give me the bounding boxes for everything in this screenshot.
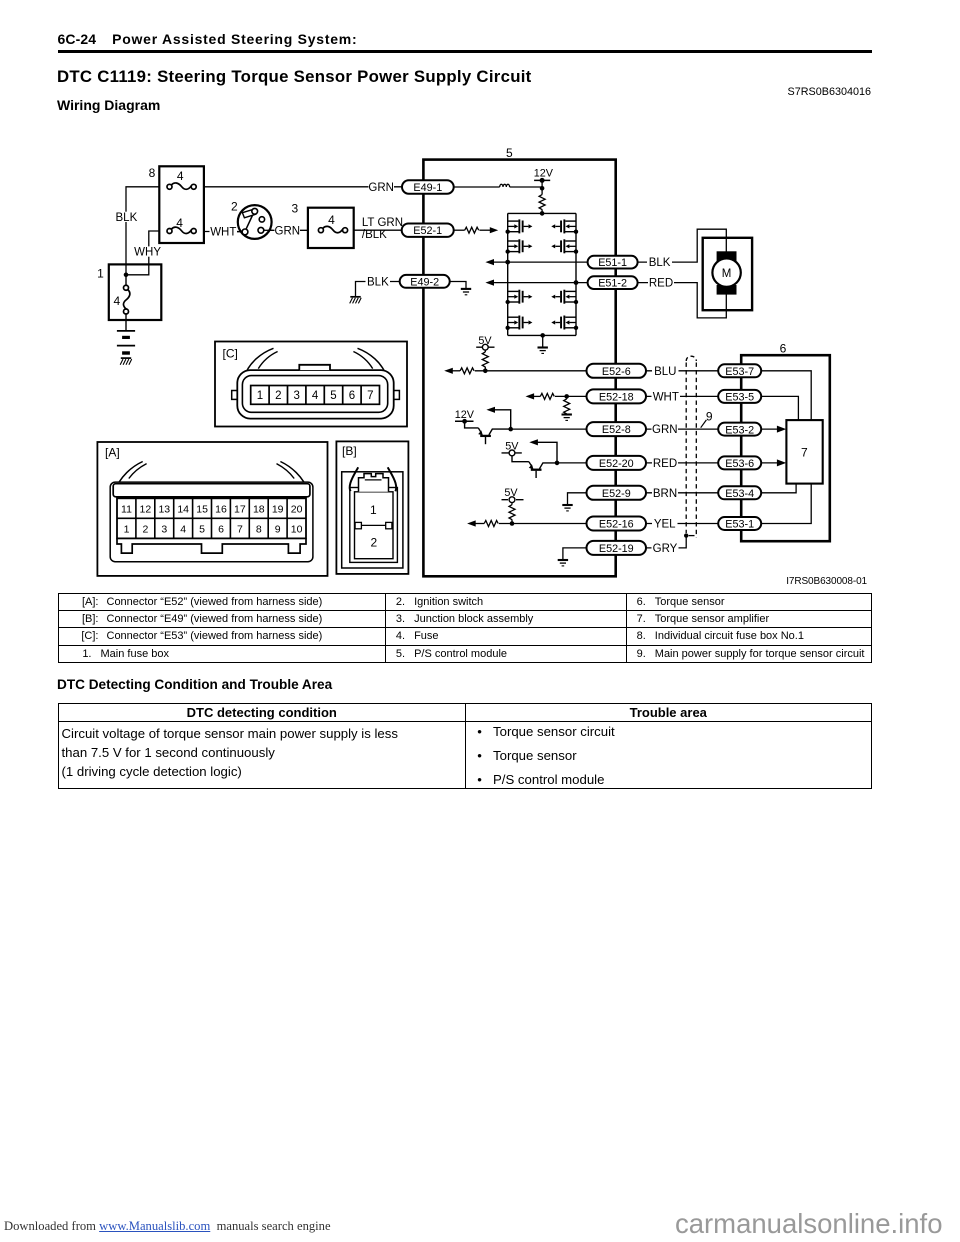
label 6 (780, 341, 787, 355)
connector E52-16 (587, 517, 647, 531)
wire label BLU (652, 365, 679, 378)
svg-text:4: 4 (177, 169, 184, 183)
svg-text:WHY: WHY (134, 247, 161, 259)
wire: E53-6 into amplifier with arrow (761, 459, 787, 466)
svg-text:BLK: BLK (649, 257, 671, 269)
wire label RED (motor) (648, 277, 674, 290)
connector E53-5 (718, 390, 761, 404)
footer manualslib line (4, 1219, 331, 1234)
shielding (dashed, 9) (686, 356, 696, 537)
transistor Q10 (E52-20 driver) (512, 456, 557, 478)
connector E52-6 (587, 364, 647, 378)
svg-text:E49-2: E49-2 (410, 276, 439, 288)
svg-text:4: 4 (113, 294, 120, 308)
node: E52-18 junction (564, 394, 569, 399)
wire: E52-18 to E53-5 (WHT) (646, 395, 719, 397)
transistor Q9 (E52-8 driver) (465, 421, 511, 444)
wire label BRN (652, 487, 678, 500)
svg-text:RED: RED (649, 277, 673, 289)
torque sensor 6 (741, 355, 830, 541)
connector E53-7 (718, 364, 761, 378)
wire label GRN (ignition to fuse 3) (275, 225, 301, 237)
node: junction of E49-1 wire and 12V rail (540, 186, 545, 191)
svg-text:BLK: BLK (116, 212, 138, 224)
svg-text:5: 5 (506, 146, 513, 160)
wire: WHT from fuse box 8 to ignition switch (204, 231, 242, 233)
svg-text:E53-1: E53-1 (725, 519, 754, 531)
torque sensor amplifier 7 (786, 420, 822, 484)
wire: E52-19 to internal ground (563, 548, 587, 560)
svg-text:2: 2 (231, 200, 238, 214)
svg-text:YEL: YEL (654, 519, 676, 531)
value label 4 (176, 216, 183, 230)
svg-text:1: 1 (257, 390, 263, 402)
node: E52-16 junction (510, 521, 515, 526)
node: E52-20 junction (555, 461, 560, 466)
wire: E52-8 feedback arrow (486, 407, 510, 429)
transistor Q2 (H-bridge upper-left low) (508, 239, 533, 253)
connector E49-2 (400, 275, 450, 288)
node: E51-1 junction on left rail (505, 260, 510, 265)
svg-text:18: 18 (253, 503, 265, 515)
node: H-bridge top rail junction (540, 211, 545, 216)
svg-text:E53-7: E53-7 (725, 366, 754, 378)
ground (E52-19) (558, 560, 568, 566)
value label 4 (177, 169, 184, 183)
svg-text:E52-6: E52-6 (602, 366, 631, 378)
pins 1-7 of connector [C] (251, 386, 380, 405)
svg-text:6: 6 (218, 524, 224, 536)
wire: E52-6 to E53-7 (BLU) (646, 370, 719, 372)
wire: E52-20 row (557, 462, 587, 464)
svg-text:14: 14 (177, 503, 189, 515)
svg-text:/BLK: /BLK (362, 229, 387, 241)
svg-text:6: 6 (780, 341, 787, 355)
svg-text:E52-19: E52-19 (599, 543, 634, 555)
fuse 4 (bottom, in box 8) (167, 227, 196, 233)
connector E49-1 (402, 180, 454, 194)
connector E52-18 (587, 389, 647, 403)
connector E52-9 (587, 486, 647, 500)
node: shield drain junction (684, 533, 695, 537)
svg-text:E52-1: E52-1 (413, 225, 442, 237)
svg-text:4: 4 (328, 213, 335, 227)
svg-text:9: 9 (275, 524, 281, 536)
svg-text:3: 3 (293, 390, 299, 402)
wire: E52-20 feedback arrow (529, 439, 557, 463)
svg-text:10: 10 (291, 524, 303, 536)
wire: E52-9 to internal ground (568, 493, 588, 505)
wire label WHY (134, 246, 162, 258)
svg-text:15: 15 (196, 503, 208, 515)
ground (chassis, below battery) (120, 358, 132, 365)
connector E53-4 (718, 486, 761, 500)
wire label BLK (left) (115, 212, 139, 224)
wire: E51-2 to right H-bridge midpoint with arrow (485, 280, 588, 286)
wire: fuse box 8 to connector E49-1 (GRN) (204, 186, 403, 188)
svg-text:20: 20 (291, 503, 303, 515)
diagram figure id (786, 576, 867, 587)
svg-text:4: 4 (176, 216, 183, 230)
svg-text:BLU: BLU (654, 366, 676, 378)
svg-text:E52-16: E52-16 (599, 519, 634, 531)
transistor Q5 (H-bridge lower-left high) (508, 290, 533, 304)
svg-text:E53-6: E53-6 (725, 458, 754, 470)
battery (117, 320, 135, 354)
ground (inside module, E49-2) (461, 289, 471, 295)
wire: LT GRN/BLK from fuse box 3 to connector E52-1 (354, 229, 402, 231)
svg-text:11: 11 (121, 503, 132, 515)
svg-text:4: 4 (312, 390, 319, 402)
DTC table (58, 703, 872, 790)
wire: E52-8 row (511, 428, 587, 430)
svg-text:3: 3 (161, 524, 167, 536)
wire: E51-1 BLK to motor (638, 229, 727, 262)
wire label BLK (motor) (647, 256, 672, 269)
wire: E52-18 row with resistor and arrow (526, 393, 588, 399)
wire: H-bridge rails (508, 213, 576, 335)
svg-text:E52-8: E52-8 (602, 424, 631, 436)
connector E52-1 (402, 224, 454, 238)
svg-text:12: 12 (140, 503, 152, 515)
label 7 (801, 445, 808, 459)
wire: E53-5 to amplifier (761, 396, 799, 420)
svg-text:BLK: BLK (367, 277, 389, 289)
svg-text:8: 8 (256, 524, 262, 536)
wire: E52-8 to E53-2 (GRN) (646, 428, 719, 430)
svg-text:7: 7 (237, 524, 243, 536)
svg-text:M: M (722, 268, 732, 280)
ignition switch 2 (237, 205, 273, 239)
wire: E52-1 gate drive with resistor and arrow (454, 227, 499, 233)
connector view [B] (E49, harness side) (336, 441, 408, 574)
ground (below H-bridge) (538, 348, 548, 354)
P/S control module 5 (423, 160, 615, 577)
value label 4 (113, 294, 120, 308)
svg-text:WHT: WHT (653, 392, 679, 404)
main fuse box 1 (109, 264, 162, 320)
resistor (5V pull-up, E52-16) (509, 505, 515, 524)
footer watermark (675, 1208, 943, 1240)
node: junction dot in main fuse box (124, 273, 129, 278)
wire: E52-16 row with resistor and arrow (467, 520, 587, 526)
connector E53-1 (718, 517, 761, 531)
wire: E53-4 to amplifier (761, 484, 797, 493)
svg-text:E53-5: E53-5 (725, 392, 754, 404)
transistor Q1 (H-bridge upper-left high) (508, 219, 533, 233)
wire label LT GRN /BLK (362, 217, 403, 241)
wire: E53-1 to amplifier (761, 484, 812, 524)
wire: E49-2 chassis ground (outside module) (356, 282, 401, 297)
svg-text:19: 19 (272, 503, 284, 515)
wire: BLK from fuse box 8 down to main fuse box 1 (126, 187, 159, 275)
transistor Q6 (H-bridge lower-left low) (508, 316, 533, 330)
wire: WHY from fuse box 8 down to main fuse box 1 (127, 231, 159, 275)
label 8 (149, 166, 156, 180)
individual circuit fuse box No.1 (8) (159, 166, 204, 243)
svg-text:RED: RED (653, 458, 677, 470)
svg-text:16: 16 (215, 503, 227, 515)
wire: E53-7 to amplifier (761, 371, 812, 420)
svg-text:[B]: [B] (342, 444, 357, 458)
wire: E52-6 row with resistor and arrow (444, 368, 587, 374)
svg-text:3: 3 (292, 201, 299, 215)
svg-text:E49-1: E49-1 (413, 182, 442, 194)
svg-text:GRN: GRN (652, 424, 678, 436)
connector E52-20 (587, 456, 647, 470)
node: E52-8 junction (508, 427, 513, 432)
svg-text:GRY: GRY (653, 543, 678, 555)
svg-text:9: 9 (706, 409, 713, 423)
svg-text:2: 2 (142, 524, 148, 536)
label 3 (292, 201, 299, 215)
page header section (58, 31, 358, 47)
svg-text:[C]: [C] (223, 346, 238, 360)
wire label WHT (210, 226, 238, 238)
wire label GRN (to E49-1) (368, 182, 394, 194)
svg-text:7: 7 (367, 390, 373, 402)
value label 4 (328, 213, 335, 227)
connector E51-1 (588, 256, 638, 269)
svg-text:8: 8 (149, 166, 156, 180)
svg-text:E53-4: E53-4 (725, 488, 754, 500)
connector E52-19 (587, 541, 647, 555)
svg-text:12V: 12V (534, 167, 554, 179)
connector E51-2 (588, 276, 638, 289)
ground (E52-9) (562, 505, 572, 511)
node: E51-2 junction on right rail (574, 280, 579, 285)
wire: E51-1 to left H-bridge midpoint with arrow (485, 259, 588, 265)
svg-text:17: 17 (234, 503, 246, 515)
resistor (E52-18 to ground) (564, 396, 570, 414)
svg-text:5: 5 (330, 390, 336, 402)
legend table (58, 593, 872, 664)
wire label BLK (E49-2) (366, 276, 391, 288)
svg-text:7: 7 (801, 445, 808, 459)
svg-text:2: 2 (275, 390, 281, 402)
ground (chassis, left of E49-2) (350, 297, 362, 304)
connector view [A] (E52, harness side) (97, 442, 327, 576)
svg-text:E52-20: E52-20 (599, 458, 634, 470)
svg-text:4: 4 (180, 524, 186, 536)
connector E53-2 (718, 423, 761, 437)
5V supply (E52-16 row) (502, 487, 524, 505)
transistor Q4 (H-bridge upper-right low) (551, 239, 576, 253)
label 9 with leader (701, 409, 713, 427)
svg-text:6: 6 (349, 390, 355, 402)
resistor (5V pull-up, E52-6) (482, 352, 488, 371)
transistor Q3 (H-bridge upper-right high) (551, 219, 576, 233)
resistor (12V to H-bridge) (539, 195, 545, 214)
wire label WHT (652, 391, 681, 404)
svg-text:1: 1 (124, 524, 130, 536)
DTC heading (57, 677, 332, 692)
svg-text:[A]: [A] (105, 445, 120, 459)
wire: E53-2 into amplifier with arrow (761, 426, 787, 433)
connector E52-8 (587, 422, 647, 436)
wire: E49-1 to 12V node with inductor (454, 184, 543, 187)
transistor Q7 (H-bridge lower-right high) (551, 290, 576, 304)
svg-text:13: 13 (158, 503, 170, 515)
fuse box 3 (308, 208, 354, 248)
wire label GRN (652, 424, 679, 437)
wire: E49-2 internal ground (450, 282, 467, 289)
wire: E51-2 RED to motor (638, 283, 727, 318)
ground (E52-18 pull-down) (562, 415, 572, 421)
fuse 4 (top, in box 8) (167, 183, 196, 189)
wire: E52-9 to E53-4 (BRN) (646, 492, 719, 494)
wire label GRY (652, 542, 679, 555)
node: H-bridge bottom center (540, 333, 545, 347)
node: H-bridge source junction dots (506, 230, 579, 330)
connector view [C] (E53, harness side) (215, 342, 407, 427)
svg-text:BRN: BRN (653, 488, 677, 500)
label 5 (506, 146, 513, 160)
svg-text:2: 2 (370, 535, 377, 549)
wire label YEL (652, 518, 678, 531)
svg-text:E53-2: E53-2 (725, 424, 754, 436)
svg-text:E51-1: E51-1 (598, 257, 627, 269)
svg-text:1: 1 (370, 503, 377, 517)
svg-text:5: 5 (199, 524, 205, 536)
svg-text:E52-18: E52-18 (599, 392, 634, 404)
label 1 (97, 267, 104, 281)
svg-text:GRN: GRN (275, 226, 301, 238)
motor M (703, 238, 752, 310)
svg-text:E52-9: E52-9 (602, 488, 631, 500)
12V supply (E52-8 row) (455, 409, 475, 423)
svg-text:LT GRN: LT GRN (362, 217, 403, 229)
node: 12V supply (534, 167, 554, 194)
label 2 (231, 200, 238, 214)
connector E53-6 (718, 456, 761, 470)
svg-text:1: 1 (97, 267, 104, 281)
wire: E52-20 to E53-6 (RED) (646, 462, 719, 464)
wire label RED (652, 457, 678, 470)
wire: E52-16 to E53-1 (YEL) (646, 523, 719, 525)
wire: GRN from ignition switch to fuse box 3 (264, 229, 308, 231)
main fuse 4 (in box 1) (123, 275, 129, 320)
svg-text:GRN: GRN (368, 182, 394, 194)
pins 1-20 of connector [A] (117, 498, 306, 538)
svg-text:WHT: WHT (210, 227, 236, 239)
transistor Q8 (H-bridge lower-right low) (551, 316, 576, 330)
node: E52-6 junction (483, 369, 488, 374)
wire: E52-19 GRY to shield (646, 536, 686, 548)
fuse 4 (in box 3) (318, 226, 347, 232)
5V supply (E52-20 row) (502, 441, 522, 456)
5V supply (E52-6 row) (476, 335, 494, 352)
svg-text:E51-2: E51-2 (598, 278, 627, 290)
